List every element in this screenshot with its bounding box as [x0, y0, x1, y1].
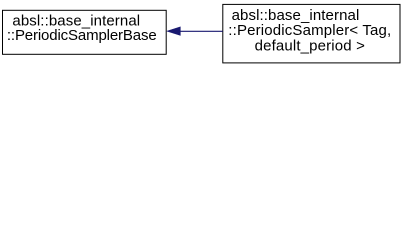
inheritance arrow shaft (wire from derived box to arrowhead) [180, 30, 223, 32]
inheritance arrowhead (points at base class box) [167, 27, 180, 35]
node: derived class box absl::base_internal::PeriodicSampler< Tag, default_period > [223, 4, 400, 63]
svg-text:default_period >: default_period > [255, 37, 365, 54]
svg-text:::PeriodicSampler< Tag,: ::PeriodicSampler< Tag, [228, 22, 391, 39]
node: base class box absl::base_internal::PeriodicSamplerBase [3, 10, 167, 54]
svg-text:::PeriodicSamplerBase: ::PeriodicSamplerBase [7, 27, 157, 44]
